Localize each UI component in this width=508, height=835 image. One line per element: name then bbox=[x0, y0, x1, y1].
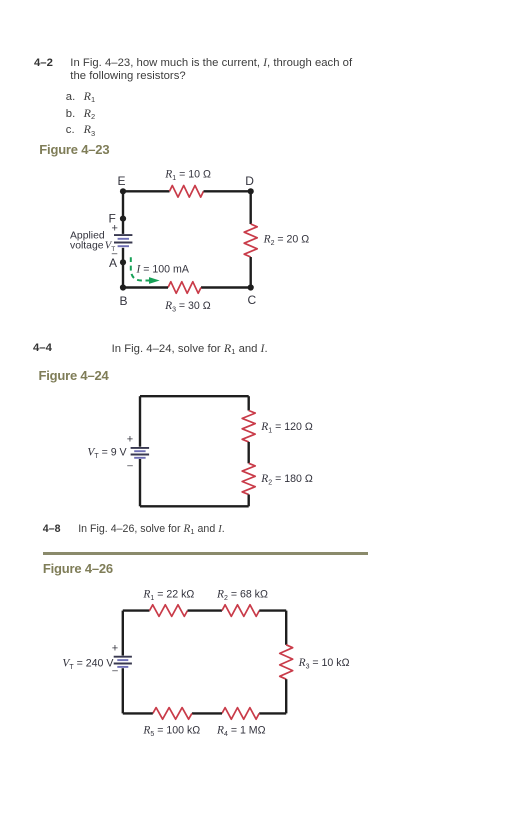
svg-text:R2 = 180 Ω: R2 = 180 Ω bbox=[260, 473, 313, 487]
problem 4-8 text bbox=[78, 523, 225, 537]
resistor R1 = 22 kohm (Fig.4-26) bbox=[150, 605, 188, 617]
resistor R2 = 20 ohm (Fig.4-23) bbox=[244, 224, 257, 257]
label node B bbox=[120, 294, 128, 308]
right wire upper (Fig.4-26) bbox=[285, 611, 287, 645]
wire D to R2 (right upper, Fig.4-23) bbox=[249, 191, 251, 224]
svg-text:+: + bbox=[112, 223, 118, 235]
label R4 = 1 Mohm (Fig.4-26) bbox=[216, 724, 266, 738]
node E bbox=[120, 188, 126, 194]
resistor R1 = 120 ohm (Fig.4-24) bbox=[242, 411, 255, 442]
label node A bbox=[109, 256, 117, 270]
list item c bbox=[66, 124, 75, 138]
left wire lower (Fig.4-24) bbox=[139, 459, 141, 506]
problem 4-4 number bbox=[33, 342, 52, 354]
wire B to A (left lower, Fig.4-23) bbox=[122, 248, 124, 288]
resistor R1 = 10 ohm (Fig.4-23) bbox=[170, 186, 204, 198]
svg-text:C: C bbox=[248, 293, 257, 307]
figure 4-24 heading bbox=[39, 368, 109, 383]
bottom wire left segment (Fig.4-26) bbox=[123, 712, 153, 714]
list item b bbox=[66, 108, 75, 122]
node D bbox=[248, 188, 254, 194]
wire R3 to B (bottom left, Fig.4-23) bbox=[123, 286, 168, 288]
wire E to R1 (top left, Fig.4-23) bbox=[123, 190, 170, 192]
svg-text:R2 = 20 Ω: R2 = 20 Ω bbox=[263, 234, 310, 248]
resistor R5 = 100 kohm (Fig.4-26) bbox=[153, 708, 192, 720]
label node D bbox=[245, 174, 254, 188]
svg-text:VT = 9 V: VT = 9 V bbox=[87, 446, 127, 460]
label VT = 240 V (Fig.4-26) bbox=[62, 657, 114, 671]
resistor R2 = 68 kohm (Fig.4-26) bbox=[222, 605, 259, 617]
right wire lower (Fig.4-26) bbox=[285, 679, 287, 713]
top wire (Fig.4-24) bbox=[140, 395, 249, 397]
label R1 = 22 kohm (Fig.4-26) bbox=[142, 588, 194, 602]
left wire lower (Fig.4-26) bbox=[122, 668, 124, 713]
battery minus sign (Fig.4-26) bbox=[112, 666, 118, 677]
label R2 = 20 ohm (Fig.4-23) bbox=[263, 234, 310, 248]
label node E bbox=[118, 174, 126, 188]
node F bbox=[120, 216, 126, 222]
label R2 = 180 ohm (Fig.4-24) bbox=[260, 473, 313, 487]
resistor R3 = 30 ohm (Fig.4-23) bbox=[168, 282, 201, 294]
problem 4-2 text bbox=[70, 57, 352, 85]
label R2 = 68 kohm (Fig.4-26) bbox=[216, 588, 268, 602]
label node F bbox=[109, 211, 116, 225]
wire R1 to D (top right, Fig.4-23) bbox=[204, 190, 251, 192]
problem 4-8 number bbox=[43, 523, 61, 535]
resistor R2 = 180 ohm (Fig.4-24) bbox=[242, 463, 255, 494]
svg-text:D: D bbox=[245, 174, 254, 188]
svg-text:B: B bbox=[120, 294, 128, 308]
svg-text:E: E bbox=[118, 174, 126, 188]
battery minus sign (Fig.4-24) bbox=[127, 461, 133, 472]
bottom wire (Fig.4-24) bbox=[140, 505, 249, 507]
left wire upper (Fig.4-24) bbox=[139, 396, 141, 447]
svg-text:R2 = 68 kΩ: R2 = 68 kΩ bbox=[216, 588, 268, 602]
svg-text:R3 = 10 kΩ: R3 = 10 kΩ bbox=[298, 657, 350, 671]
battery VT = 240 V (Fig.4-26) bbox=[114, 657, 132, 667]
node B bbox=[120, 284, 126, 290]
wire F to E (left upper, Fig.4-23) bbox=[122, 191, 124, 234]
battery VT = 9V (Fig.4-24) bbox=[131, 448, 150, 458]
label node C bbox=[248, 293, 257, 307]
section divider rule bbox=[43, 552, 369, 555]
node C bbox=[248, 284, 254, 290]
top wire middle segment (Fig.4-26) bbox=[188, 609, 223, 611]
top wire right segment (Fig.4-26) bbox=[259, 609, 286, 611]
label Applied voltage VT bbox=[70, 230, 115, 253]
svg-text:+: + bbox=[127, 433, 133, 445]
battery plus sign (Fig.4-23) bbox=[112, 223, 118, 235]
label VT = 9 V (Fig.4-24) bbox=[87, 446, 127, 460]
wire C to R3 (bottom right, Fig.4-23) bbox=[201, 286, 251, 288]
label R1 = 120 ohm (Fig.4-24) bbox=[260, 421, 313, 435]
svg-text:R1 = 22 kΩ: R1 = 22 kΩ bbox=[142, 588, 194, 602]
svg-text:VT = 240 V: VT = 240 V bbox=[62, 657, 114, 671]
wire R2 to C (right lower, Fig.4-23) bbox=[249, 257, 251, 288]
svg-text:I = 100 mA: I = 100 mA bbox=[136, 264, 190, 276]
label I = 100 mA (Fig.4-23) bbox=[136, 264, 190, 276]
svg-text:R3 = 30 Ω: R3 = 30 Ω bbox=[164, 300, 211, 314]
right wire middle (Fig.4-24) bbox=[247, 442, 249, 463]
node A bbox=[120, 259, 126, 265]
svg-text:voltageVT: voltageVT bbox=[70, 241, 115, 254]
svg-text:R1 = 10 Ω: R1 = 10 Ω bbox=[164, 169, 211, 183]
figure 4-26 heading bbox=[43, 561, 113, 576]
svg-text:+: + bbox=[112, 642, 118, 654]
right wire upper (Fig.4-24) bbox=[247, 396, 249, 410]
figure 4-23 heading bbox=[39, 142, 109, 157]
current arrow I (green dashed, Fig.4-23) bbox=[131, 257, 160, 284]
problem 4-2 number bbox=[34, 57, 53, 69]
label R1 = 10 ohm (Fig.4-23) bbox=[164, 169, 211, 183]
resistor R3 = 10 kohm (Fig.4-26) bbox=[280, 645, 293, 679]
svg-text:R1 = 120 Ω: R1 = 120 Ω bbox=[260, 421, 313, 435]
svg-text:–: – bbox=[127, 461, 133, 472]
label R3 = 30 ohm (Fig.4-23) bbox=[164, 300, 211, 314]
label R5 = 100 kohm (Fig.4-26) bbox=[142, 724, 200, 738]
battery plus sign (Fig.4-24) bbox=[127, 433, 133, 445]
bottom wire right segment (Fig.4-26) bbox=[259, 712, 286, 714]
battery VT (Fig.4-23) bbox=[114, 235, 132, 246]
right wire lower (Fig.4-24) bbox=[247, 495, 249, 507]
svg-text:R5 = 100 kΩ: R5 = 100 kΩ bbox=[142, 724, 200, 738]
list item a bbox=[66, 91, 75, 105]
battery minus sign (Fig.4-23) bbox=[112, 249, 118, 260]
svg-text:R4 = 1 MΩ: R4 = 1 MΩ bbox=[216, 724, 266, 738]
top wire left segment (Fig.4-26) bbox=[123, 609, 150, 611]
problem 4-4 text bbox=[112, 342, 268, 357]
battery plus sign (Fig.4-26) bbox=[112, 642, 118, 654]
label R3 = 10 kohm (Fig.4-26) bbox=[298, 657, 350, 671]
resistor R4 = 1 Mohm (Fig.4-26) bbox=[222, 708, 259, 720]
bottom wire middle segment (Fig.4-26) bbox=[192, 712, 222, 714]
left wire upper (Fig.4-26) bbox=[122, 611, 124, 656]
